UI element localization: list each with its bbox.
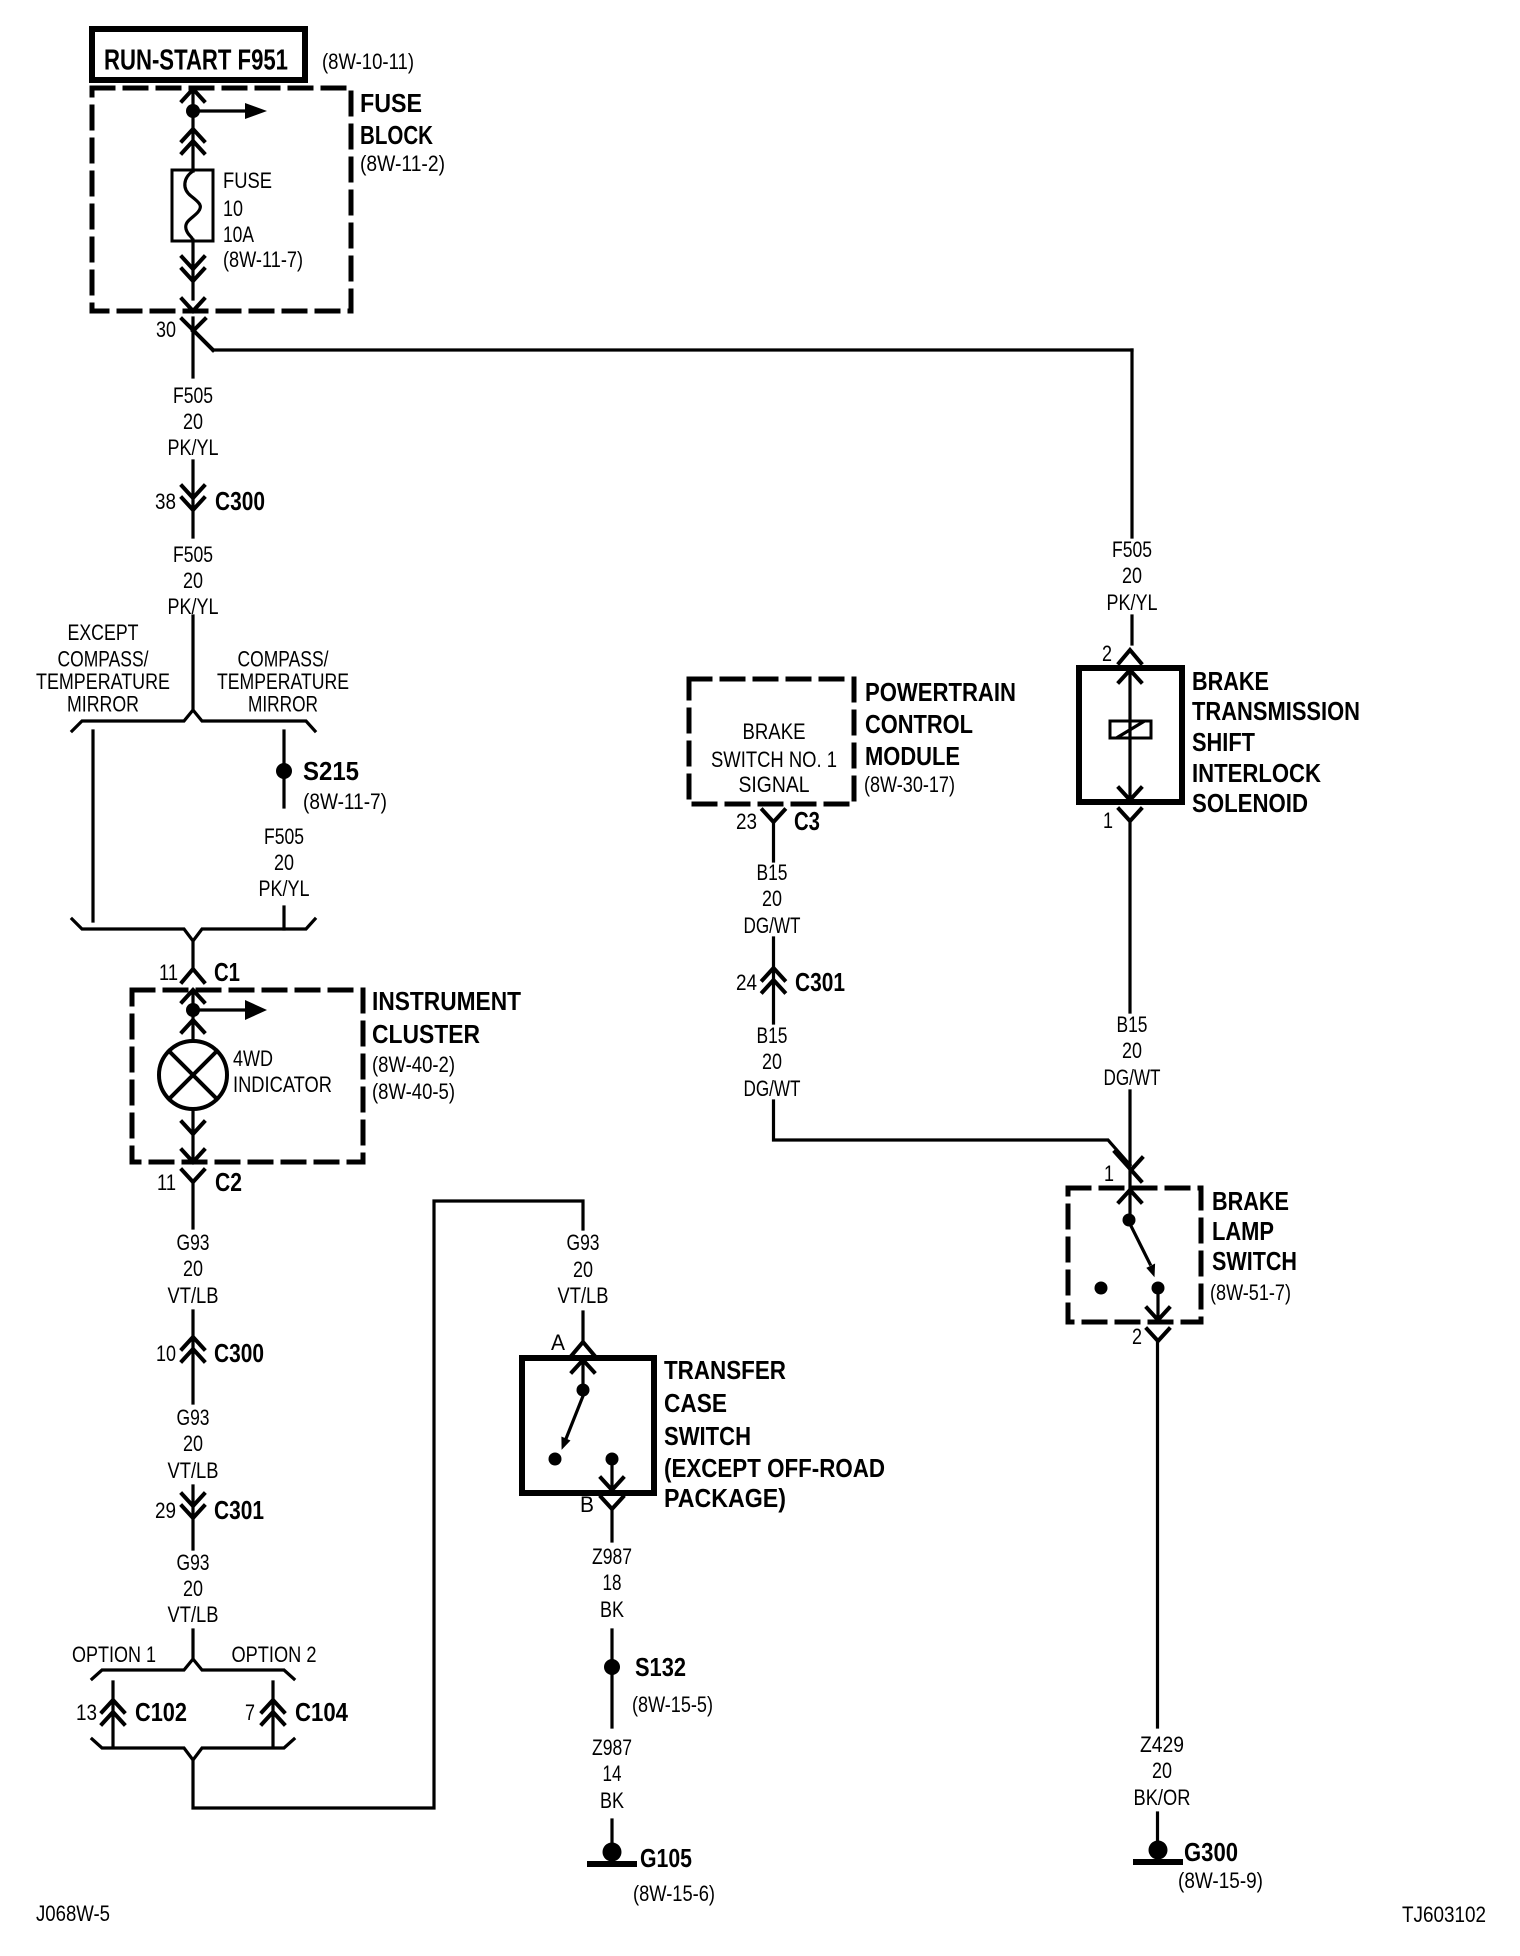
svg-text:B: B xyxy=(580,1492,594,1517)
svg-text:(EXCEPT OFF-ROAD: (EXCEPT OFF-ROAD xyxy=(664,1453,885,1483)
svg-text:RUN-START F951: RUN-START F951 xyxy=(104,45,288,77)
svg-text:C104: C104 xyxy=(295,1697,348,1727)
svg-text:20: 20 xyxy=(183,1431,203,1456)
svg-text:23: 23 xyxy=(736,809,757,834)
svg-text:C301: C301 xyxy=(214,1495,264,1525)
svg-text:SWITCH: SWITCH xyxy=(1212,1246,1297,1276)
svg-text:INTERLOCK: INTERLOCK xyxy=(1192,758,1321,788)
svg-text:11: 11 xyxy=(159,960,178,985)
svg-text:TRANSMISSION: TRANSMISSION xyxy=(1192,696,1360,726)
svg-text:38: 38 xyxy=(155,489,176,514)
svg-text:20: 20 xyxy=(1122,563,1142,588)
svg-text:10A: 10A xyxy=(223,222,254,247)
svg-text:F505: F505 xyxy=(173,542,213,567)
svg-text:Z987: Z987 xyxy=(592,1544,632,1569)
svg-text:G93: G93 xyxy=(177,1230,210,1255)
svg-text:(8W-15-9): (8W-15-9) xyxy=(1178,1868,1263,1893)
svg-text:SWITCH: SWITCH xyxy=(664,1421,751,1451)
svg-text:4WD: 4WD xyxy=(233,1046,273,1071)
svg-text:POWERTRAIN: POWERTRAIN xyxy=(865,677,1016,707)
svg-text:BK: BK xyxy=(600,1788,624,1813)
svg-text:G105: G105 xyxy=(640,1843,692,1873)
svg-text:COMPASS/: COMPASS/ xyxy=(58,647,150,672)
svg-text:DG/WT: DG/WT xyxy=(1104,1065,1161,1090)
svg-text:VT/LB: VT/LB xyxy=(168,1283,219,1308)
svg-text:20: 20 xyxy=(762,1049,782,1074)
svg-text:G93: G93 xyxy=(177,1405,210,1430)
svg-text:20: 20 xyxy=(762,886,782,911)
svg-text:VT/LB: VT/LB xyxy=(168,1602,219,1627)
svg-text:B15: B15 xyxy=(1117,1012,1148,1037)
svg-text:VT/LB: VT/LB xyxy=(558,1283,609,1308)
svg-text:BLOCK: BLOCK xyxy=(360,120,433,150)
svg-text:EXCEPT: EXCEPT xyxy=(68,620,139,645)
svg-text:11: 11 xyxy=(157,1170,176,1195)
svg-text:(8W-10-11): (8W-10-11) xyxy=(322,49,414,74)
svg-text:(8W-11-7): (8W-11-7) xyxy=(303,789,387,814)
svg-text:BRAKE: BRAKE xyxy=(1212,1186,1289,1216)
svg-text:(8W-11-2): (8W-11-2) xyxy=(360,151,445,176)
svg-text:PK/YL: PK/YL xyxy=(168,594,219,619)
svg-text:Z987: Z987 xyxy=(592,1735,632,1760)
svg-text:10: 10 xyxy=(156,1341,176,1366)
svg-text:C301: C301 xyxy=(795,967,845,997)
svg-text:13: 13 xyxy=(76,1700,97,1725)
svg-text:BK/OR: BK/OR xyxy=(1134,1785,1191,1810)
svg-text:30: 30 xyxy=(156,317,176,342)
svg-text:20: 20 xyxy=(183,568,203,593)
svg-text:PACKAGE): PACKAGE) xyxy=(664,1483,786,1513)
svg-text:G93: G93 xyxy=(177,1550,210,1575)
svg-text:(8W-40-2): (8W-40-2) xyxy=(372,1052,455,1077)
svg-text:C102: C102 xyxy=(135,1697,187,1727)
svg-text:C3: C3 xyxy=(794,806,820,836)
svg-text:F505: F505 xyxy=(264,824,304,849)
svg-text:14: 14 xyxy=(603,1761,622,1786)
svg-text:BK: BK xyxy=(600,1597,624,1622)
svg-text:C300: C300 xyxy=(215,486,265,516)
svg-text:INDICATOR: INDICATOR xyxy=(233,1072,332,1097)
svg-text:MODULE: MODULE xyxy=(865,741,960,771)
svg-text:PK/YL: PK/YL xyxy=(259,876,310,901)
svg-text:(8W-15-6): (8W-15-6) xyxy=(633,1881,715,1906)
svg-text:20: 20 xyxy=(573,1257,593,1282)
svg-text:20: 20 xyxy=(1122,1038,1142,1063)
svg-text:10: 10 xyxy=(223,196,243,221)
svg-text:B15: B15 xyxy=(757,1023,788,1048)
svg-text:2: 2 xyxy=(1132,1324,1142,1349)
svg-text:SOLENOID: SOLENOID xyxy=(1192,788,1308,818)
svg-text:G93: G93 xyxy=(567,1230,600,1255)
svg-text:COMPASS/: COMPASS/ xyxy=(238,647,330,672)
svg-text:BRAKE: BRAKE xyxy=(743,719,806,744)
svg-text:MIRROR: MIRROR xyxy=(248,692,318,717)
svg-text:PK/YL: PK/YL xyxy=(1107,590,1158,615)
svg-text:(8W-40-5): (8W-40-5) xyxy=(372,1079,455,1104)
svg-text:SHIFT: SHIFT xyxy=(1192,727,1255,757)
svg-text:TEMPERATURE: TEMPERATURE xyxy=(217,669,349,694)
svg-text:DG/WT: DG/WT xyxy=(744,913,801,938)
svg-text:INSTRUMENT: INSTRUMENT xyxy=(372,986,521,1016)
svg-text:F505: F505 xyxy=(173,383,213,408)
svg-text:OPTION 2: OPTION 2 xyxy=(232,1642,317,1667)
svg-text:24: 24 xyxy=(736,970,757,995)
svg-text:1: 1 xyxy=(1103,808,1113,833)
svg-text:20: 20 xyxy=(183,1256,203,1281)
svg-text:29: 29 xyxy=(155,1498,176,1523)
svg-text:C300: C300 xyxy=(214,1338,264,1368)
svg-text:VT/LB: VT/LB xyxy=(168,1458,219,1483)
svg-text:DG/WT: DG/WT xyxy=(744,1076,801,1101)
svg-text:OPTION 1: OPTION 1 xyxy=(72,1642,156,1667)
svg-text:TRANSFER: TRANSFER xyxy=(664,1355,786,1385)
svg-text:B15: B15 xyxy=(757,860,788,885)
svg-text:F505: F505 xyxy=(1112,537,1152,562)
svg-text:J068W-5: J068W-5 xyxy=(36,1901,110,1926)
svg-text:CONTROL: CONTROL xyxy=(865,709,973,739)
svg-text:C2: C2 xyxy=(215,1167,242,1197)
svg-text:(8W-11-7): (8W-11-7) xyxy=(223,247,303,272)
svg-text:1: 1 xyxy=(1104,1161,1114,1186)
svg-text:C1: C1 xyxy=(214,957,240,987)
svg-text:FUSE: FUSE xyxy=(360,88,422,118)
svg-text:G300: G300 xyxy=(1184,1837,1238,1867)
svg-text:20: 20 xyxy=(274,850,294,875)
svg-text:20: 20 xyxy=(1152,1758,1172,1783)
svg-text:20: 20 xyxy=(183,409,203,434)
svg-text:BRAKE: BRAKE xyxy=(1192,666,1269,696)
svg-text:LAMP: LAMP xyxy=(1212,1216,1274,1246)
svg-text:TEMPERATURE: TEMPERATURE xyxy=(36,669,170,694)
svg-text:SWITCH NO. 1: SWITCH NO. 1 xyxy=(711,747,837,772)
svg-text:TJ603102: TJ603102 xyxy=(1402,1902,1486,1927)
svg-text:(8W-51-7): (8W-51-7) xyxy=(1210,1280,1291,1305)
svg-text:18: 18 xyxy=(603,1570,622,1595)
svg-text:Z429: Z429 xyxy=(1140,1732,1184,1757)
svg-text:CASE: CASE xyxy=(664,1388,727,1418)
svg-text:PK/YL: PK/YL xyxy=(168,435,219,460)
svg-text:SIGNAL: SIGNAL xyxy=(739,772,810,797)
svg-text:2: 2 xyxy=(1102,641,1112,666)
svg-text:A: A xyxy=(551,1330,565,1355)
svg-text:CLUSTER: CLUSTER xyxy=(372,1019,480,1049)
svg-text:FUSE: FUSE xyxy=(223,168,272,193)
svg-text:(8W-15-5): (8W-15-5) xyxy=(632,1692,713,1717)
svg-text:7: 7 xyxy=(245,1700,255,1725)
svg-text:(8W-30-17): (8W-30-17) xyxy=(864,772,955,797)
svg-text:MIRROR: MIRROR xyxy=(67,692,139,717)
svg-text:S215: S215 xyxy=(303,756,359,786)
svg-text:S132: S132 xyxy=(635,1652,686,1682)
svg-text:20: 20 xyxy=(183,1576,203,1601)
